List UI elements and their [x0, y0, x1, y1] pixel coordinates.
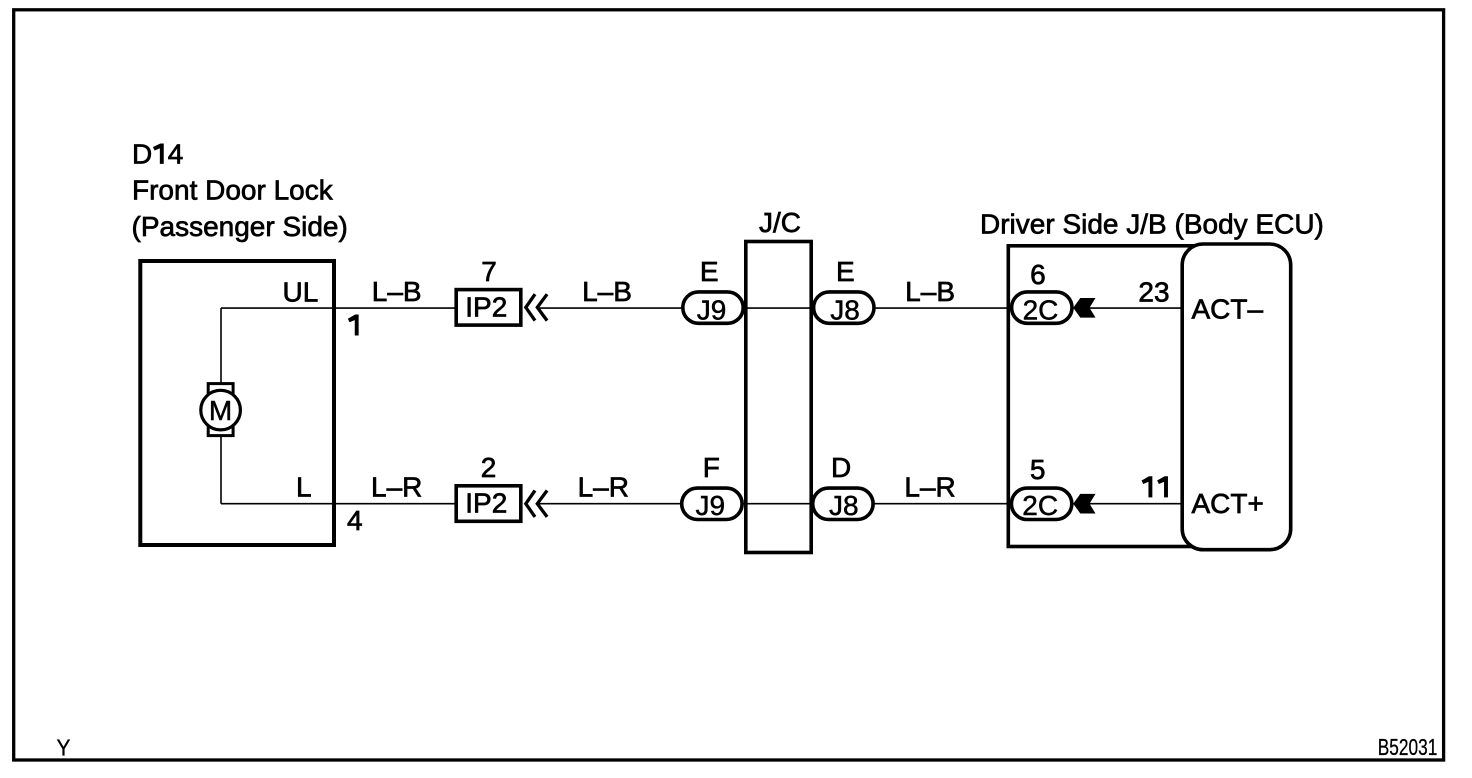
svg-text:23: 23: [1138, 276, 1169, 307]
svg-text:5: 5: [1030, 454, 1046, 485]
svg-text:IP2: IP2: [465, 488, 507, 519]
svg-text:L–R: L–R: [578, 472, 629, 503]
svg-text:J9: J9: [697, 294, 727, 325]
svg-text:M: M: [209, 395, 232, 426]
svg-text:F: F: [703, 452, 720, 483]
svg-text:E: E: [836, 256, 855, 287]
svg-text:D: D: [831, 452, 851, 483]
svg-text:L–B: L–B: [372, 276, 422, 307]
svg-text:L–R: L–R: [371, 472, 422, 503]
svg-text:6: 6: [1030, 259, 1046, 290]
svg-text:Y: Y: [57, 734, 71, 760]
svg-text:2C: 2C: [1023, 294, 1059, 325]
svg-text:Front Door Lock: Front Door Lock: [132, 175, 334, 206]
svg-text:4: 4: [347, 505, 363, 536]
svg-text:7: 7: [481, 256, 497, 287]
svg-text:B52031: B52031: [1378, 734, 1438, 760]
svg-text:E: E: [700, 256, 719, 287]
svg-text:(Passenger Side): (Passenger Side): [132, 211, 348, 242]
svg-text:Driver Side J/B (Body ECU): Driver Side J/B (Body ECU): [980, 209, 1324, 240]
svg-text:ACT+: ACT+: [1192, 488, 1264, 519]
svg-text:J/C: J/C: [759, 207, 801, 238]
svg-text:2C: 2C: [1022, 490, 1058, 521]
svg-text:ACT–: ACT–: [1192, 293, 1264, 324]
svg-text:L–B: L–B: [905, 276, 955, 307]
svg-text:L: L: [296, 472, 312, 503]
svg-text:4: 4: [168, 139, 184, 170]
svg-text:IP2: IP2: [465, 291, 507, 322]
svg-text:2: 2: [481, 452, 497, 483]
svg-text:L–B: L–B: [582, 276, 632, 307]
svg-text:J9: J9: [696, 490, 726, 521]
svg-text:UL: UL: [283, 276, 319, 307]
svg-text:J8: J8: [829, 490, 859, 521]
svg-text:J8: J8: [830, 294, 860, 325]
svg-text:D: D: [132, 139, 152, 170]
svg-text:L–R: L–R: [904, 472, 955, 503]
